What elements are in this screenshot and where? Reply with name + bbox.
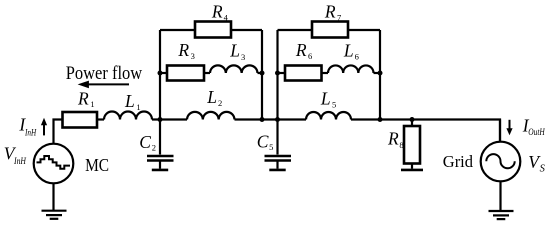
wire L6 to right vertical: [374, 72, 381, 74]
svg-text:L: L: [206, 87, 217, 107]
source Grid circle: [481, 142, 521, 182]
inductor L1: [104, 112, 152, 120]
wire main line MC top to R1: [54, 120, 63, 144]
inductor L2: [187, 112, 234, 120]
wire section1 right vertical: [261, 30, 263, 120]
node section2 left mid: [275, 71, 280, 76]
svg-text:InH: InH: [24, 129, 37, 139]
arrow I_OutH down: [506, 120, 512, 136]
wire R1 to L1: [97, 118, 104, 120]
wire section2 right vertical: [379, 30, 381, 120]
svg-text:3: 3: [241, 52, 245, 62]
node C5: [275, 117, 280, 122]
resistor R6: [285, 66, 322, 81]
svg-text:Grid: Grid: [443, 152, 474, 171]
svg-text:InH: InH: [13, 157, 27, 167]
node section1 right main: [260, 117, 265, 122]
ground MC: [42, 211, 67, 219]
wire R6 to L6: [322, 72, 329, 74]
wire L3 to right vertical: [258, 72, 263, 74]
inductor L5: [306, 112, 351, 119]
wire section1 top branch left: [160, 29, 195, 31]
wire L5 to Grid corner: [351, 120, 500, 142]
wire L1 to L2: [152, 118, 187, 120]
svg-text:3: 3: [191, 51, 195, 61]
svg-text:Power flow: Power flow: [66, 63, 143, 84]
svg-text:L: L: [124, 91, 135, 111]
svg-text:R: R: [324, 2, 336, 22]
wire MC to ground: [52, 183, 54, 210]
svg-text:6: 6: [355, 52, 359, 62]
resistor R4: [195, 22, 231, 38]
wire section2 top branch right: [348, 29, 380, 31]
svg-text:L: L: [320, 89, 331, 109]
wire section1 top branch right: [231, 29, 262, 31]
node dots: [158, 71, 415, 123]
ground C2 (single bar): [152, 169, 168, 172]
wire L2 to L5: [235, 118, 307, 120]
svg-text:5: 5: [332, 99, 336, 109]
svg-text:C: C: [257, 131, 269, 151]
MC staircase waveform: [37, 156, 71, 169]
svg-text:7: 7: [337, 13, 341, 23]
arrow I_InH up: [41, 118, 47, 136]
svg-text:R: R: [295, 40, 307, 60]
svg-text:MC: MC: [85, 155, 109, 175]
arrow power flow: [78, 81, 129, 89]
wire section2 left vertical: [276, 30, 278, 120]
ground Grid: [489, 211, 514, 219]
svg-text:6: 6: [308, 51, 312, 61]
node section1 right mid: [260, 71, 265, 76]
inductor L6: [328, 65, 374, 73]
inductor L3: [210, 65, 257, 73]
wire C2 lead: [159, 120, 161, 155]
capacitor C5: [265, 156, 292, 169]
svg-text:2: 2: [152, 143, 156, 153]
node R8: [410, 117, 415, 122]
svg-text:R: R: [211, 2, 223, 22]
wire R8 lead: [411, 120, 413, 127]
node section1 left mid: [158, 71, 163, 76]
resistor R1: [63, 112, 98, 128]
svg-text:1: 1: [136, 102, 140, 112]
svg-text:8: 8: [399, 140, 403, 150]
wire section1 left vertical: [159, 30, 161, 120]
svg-text:C: C: [139, 132, 151, 152]
Grid sine waveform: [486, 154, 514, 168]
svg-text:4: 4: [224, 12, 229, 22]
svg-text:L: L: [229, 41, 240, 61]
node section2 right mid: [378, 71, 383, 76]
resistor R7: [312, 22, 348, 38]
wire C5 lead: [276, 120, 278, 155]
wire section2 top branch left: [278, 29, 313, 31]
resistor R3: [167, 66, 204, 81]
svg-text:R: R: [387, 128, 399, 148]
svg-text:R: R: [77, 88, 89, 108]
resistor R8: [404, 126, 420, 164]
wire R8 bottom stub: [411, 164, 413, 169]
wire section2 mid branch left: [278, 72, 286, 74]
wire Grid to ground: [499, 181, 501, 211]
svg-text:2: 2: [218, 98, 222, 108]
wire R3 to L3: [204, 72, 210, 74]
source MC circle: [34, 144, 74, 184]
wire section1 mid branch left: [160, 72, 167, 74]
node C2: [158, 117, 163, 122]
wire Grid corner to circle: [499, 120, 501, 142]
ground R8 (single bar): [401, 169, 423, 172]
svg-text:R: R: [177, 40, 189, 60]
svg-text:1: 1: [90, 99, 94, 109]
svg-text:S: S: [540, 164, 546, 175]
svg-text:OutH: OutH: [528, 128, 545, 138]
ground C5 (single bar): [269, 169, 285, 172]
svg-text:5: 5: [269, 142, 273, 152]
svg-text:L: L: [343, 41, 354, 61]
node section2 right main: [378, 117, 383, 122]
capacitor C2: [147, 156, 174, 169]
